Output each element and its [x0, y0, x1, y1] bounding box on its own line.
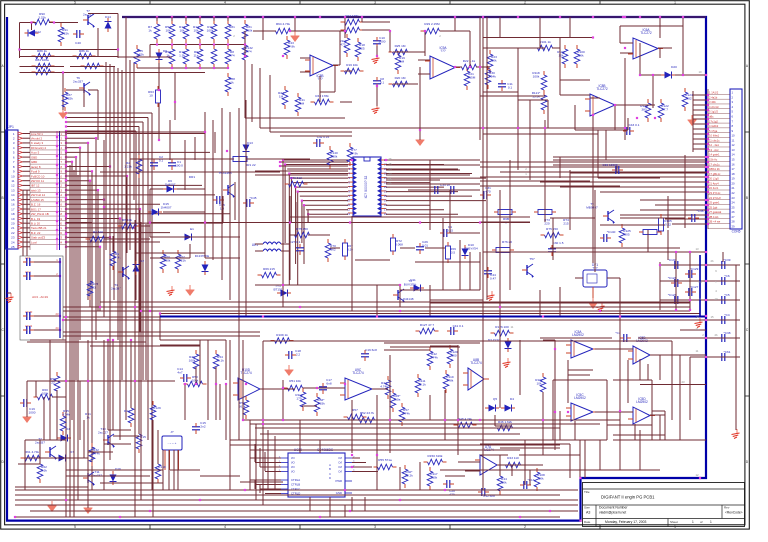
svg-text:27: 27 [732, 215, 736, 219]
svg-text:O/I: O/I [338, 470, 342, 474]
svg-text:2b: 2b [710, 259, 714, 263]
svg-text:IR1 22: IR1 22 [246, 163, 255, 167]
svg-text:21 4pc4: 21 4pc4 [709, 181, 719, 185]
svg-text:*C61: *C61 [724, 350, 731, 354]
svg-text:- ~ ~ +: - ~ ~ + [168, 441, 177, 445]
svg-text:<RevCode>: <RevCode> [725, 511, 743, 515]
svg-text:R51 10k: R51 10k [289, 379, 301, 383]
svg-text:of: of [700, 520, 703, 524]
svg-text:13 - Acc: 13 - Acc [709, 148, 719, 152]
svg-text:23: 23 [11, 236, 15, 240]
svg-text:16: 16 [732, 162, 736, 166]
svg-text:R43 110: R43 110 [507, 456, 519, 460]
svg-text:25 gate1: 25 gate1 [709, 201, 720, 205]
svg-text:2B <4 we: 2B <4 we [709, 220, 721, 224]
svg-text:TLC272: TLC272 [596, 87, 608, 91]
svg-text:23: 23 [732, 196, 736, 200]
svg-text:1: 1 [674, 1, 676, 5]
svg-text:R66 215: R66 215 [263, 267, 275, 271]
svg-text:GBD: GBD [31, 155, 37, 159]
svg-text:2: 2 [524, 525, 526, 529]
svg-text:R150 316k: R150 316k [428, 454, 443, 458]
svg-text:2sc337: 2sc337 [73, 79, 83, 83]
svg-text:R127 47.7: R127 47.7 [420, 323, 435, 327]
svg-text:21: 21 [11, 226, 15, 230]
svg-text:*C140: *C140 [607, 230, 616, 234]
svg-text:BT151: BT151 [273, 287, 282, 291]
svg-text:K stady 3: K stady 3 [31, 141, 43, 145]
svg-text:42.2k: 42.2k [405, 473, 413, 477]
svg-text:470: 470 [449, 492, 454, 496]
svg-text:1M: 1M [300, 101, 305, 105]
svg-text:*C6: *C6 [724, 274, 729, 278]
svg-text:R20 1M: R20 1M [395, 76, 406, 80]
svg-text:4.74k: 4.74k [62, 412, 70, 416]
svg-text:20: 20 [11, 221, 15, 225]
svg-text:D20: D20 [671, 65, 677, 69]
svg-text:R4 100: R4 100 [93, 230, 103, 234]
svg-text:1N4148: 1N4148 [403, 297, 414, 301]
svg-text:24: 24 [698, 280, 702, 284]
svg-text:205: 205 [624, 232, 629, 236]
svg-text:5: 5 [74, 525, 76, 529]
svg-text:Document Number: Document Number [599, 506, 628, 510]
svg-text:1/GBD 15: 1/GBD 15 [31, 198, 44, 202]
svg-text:22: 22 [732, 191, 736, 195]
svg-text:1: 1 [710, 520, 712, 524]
svg-text:R79 512: R79 512 [290, 176, 302, 180]
svg-text:4: 4 [224, 1, 226, 5]
svg-text:*C45: *C45 [250, 196, 257, 200]
svg-text:*C39: *C39 [724, 258, 731, 262]
svg-text:1 1A1/2: 1 1A1/2 [709, 91, 719, 95]
svg-text:11 cbc1c: 11 cbc1c [709, 138, 720, 142]
svg-text:100k: 100k [42, 391, 49, 395]
svg-text:11: 11 [511, 325, 514, 329]
svg-text:474: 474 [229, 53, 234, 57]
svg-text:GBD: GBD [31, 160, 37, 164]
svg-text:178k: 178k [447, 378, 454, 382]
svg-text:22 4cc1: 22 4cc1 [709, 186, 719, 190]
svg-text:1N4007: 1N4007 [165, 182, 176, 186]
svg-text:383: 383 [641, 107, 646, 111]
svg-text:C41 0.1: C41 0.1 [453, 324, 464, 328]
svg-text:1M: 1M [279, 94, 284, 98]
svg-text:C16 6n8: C16 6n8 [365, 348, 377, 352]
svg-text:100k: 100k [189, 358, 196, 362]
svg-text:D12: D12 [35, 30, 41, 34]
svg-text:21: 21 [732, 186, 736, 190]
svg-text:4n7: 4n7 [177, 370, 182, 374]
svg-text:LM2902: LM2902 [574, 396, 586, 400]
svg-text:179: 179 [296, 396, 301, 400]
svg-text:Monday, February 17, 2003: Monday, February 17, 2003 [605, 520, 647, 524]
svg-text:14: 14 [11, 193, 15, 197]
svg-text:29: 29 [732, 224, 736, 228]
svg-text:Tacio BB 21: Tacio BB 21 [31, 226, 47, 230]
svg-text:DIGIFANT II engin PG PCB1: DIGIFANT II engin PG PCB1 [601, 495, 655, 500]
svg-text:Size: Size [584, 506, 590, 510]
svg-text:2B 11c1: 2B 11c1 [709, 215, 719, 219]
svg-text:tdw) 13: tdw) 13 [31, 188, 41, 192]
svg-text:28: 28 [732, 220, 736, 224]
svg-text:B: B [329, 467, 331, 471]
svg-text:26: 26 [732, 210, 736, 214]
svg-text:Fcail 9: Fcail 9 [31, 170, 40, 174]
svg-text:332: 332 [686, 96, 691, 100]
svg-text:2.2: 2.2 [296, 352, 301, 356]
svg-text:13: 13 [695, 247, 699, 251]
svg-text:FcBCD 10: FcBCD 10 [31, 174, 45, 178]
svg-text:1k: 1k [230, 80, 234, 84]
svg-text:TLC274: TLC274 [470, 361, 482, 365]
svg-text:5: 5 [74, 1, 76, 5]
svg-text:1? gBL1c: 1? gBL1c [709, 172, 721, 176]
svg-text:1?c1g2: 1?c1g2 [709, 119, 718, 123]
svg-text:110a: 110a [394, 397, 401, 401]
svg-text:100: 100 [451, 353, 456, 357]
svg-text:1: 1 [674, 525, 676, 529]
svg-text:2n2: 2n2 [200, 424, 205, 428]
svg-text:0.068: 0.068 [395, 242, 403, 246]
svg-text:100k: 100k [331, 154, 338, 158]
svg-text:1.21k: 1.21k [178, 258, 186, 262]
svg-text:562k: 562k [239, 404, 246, 408]
svg-text:R46 1.62k: R46 1.62k [498, 420, 513, 424]
svg-text:C27 0.1: C27 0.1 [290, 240, 301, 244]
svg-text:24: 24 [388, 167, 392, 171]
svg-text:10: 10 [698, 70, 702, 74]
svg-text:B.Z. 16: B.Z. 16 [31, 203, 41, 207]
svg-text:3.32k: 3.32k [65, 96, 73, 100]
svg-text:5 1?ga: 5 1?ga [709, 129, 718, 133]
svg-text:14 gate1: 14 gate1 [709, 153, 720, 157]
svg-text:Date: Date [584, 520, 591, 524]
svg-text:25 1gb: 25 1gb [709, 205, 718, 209]
svg-text:???: ??? [440, 49, 446, 53]
svg-text:A: A [329, 463, 331, 467]
svg-text:17.8k: 17.8k [287, 44, 295, 48]
svg-text:1N4007: 1N4007 [161, 205, 172, 209]
svg-text:A3: A3 [586, 511, 590, 515]
svg-text:2 4a1b: 2 4a1b [709, 95, 718, 99]
svg-text:20: 20 [732, 181, 736, 185]
svg-text:18: 18 [11, 212, 15, 216]
svg-text:470: 470 [485, 189, 490, 193]
svg-text:CON5: CON5 [732, 230, 741, 234]
svg-text:Title: Title [584, 490, 590, 494]
svg-text:B: B [746, 196, 748, 200]
svg-text:12.1k: 12.1k [418, 382, 426, 386]
svg-text:3.5: 3.5 [451, 250, 456, 254]
svg-text:2.74k: 2.74k [430, 355, 438, 359]
svg-text:R16 10k: R16 10k [346, 63, 358, 67]
svg-text:10k: 10k [180, 28, 185, 32]
svg-text:24 2?c1/2: 24 2?c1/2 [709, 196, 721, 200]
svg-text:10 f/dw1: 10 f/dw1 [709, 134, 720, 138]
svg-text:25: 25 [388, 162, 392, 166]
svg-text:*C126: *C126 [668, 293, 677, 297]
svg-text:13: 13 [732, 148, 736, 152]
svg-text:6n8: 6n8 [326, 381, 331, 385]
svg-text:R130: R130 [158, 465, 166, 469]
svg-text:11a: 11a [194, 53, 199, 57]
svg-text:1M: 1M [400, 59, 405, 63]
svg-text:25: 25 [732, 205, 736, 209]
svg-text:13: 13 [11, 188, 15, 192]
svg-text:t/hould 2: t/hould 2 [31, 137, 42, 141]
svg-text:C40: C40 [75, 41, 81, 45]
svg-text:15: 15 [11, 198, 15, 202]
svg-text:21: 21 [695, 327, 699, 331]
svg-text:100k: 100k [246, 28, 253, 32]
svg-text:1.21k: 1.21k [124, 165, 132, 169]
svg-text:R126 100: R126 100 [495, 325, 509, 329]
svg-text:2sc337: 2sc337 [92, 473, 102, 477]
svg-text:R55 571a: R55 571a [378, 458, 392, 462]
svg-text:12: 12 [11, 184, 15, 188]
svg-text:26.1k: 26.1k [216, 358, 224, 362]
svg-text:EKBY//54: EKBY//54 [464, 246, 478, 250]
svg-text:23: 23 [388, 172, 392, 176]
svg-text:D19 P6KE: D19 P6KE [195, 254, 209, 258]
svg-text:100.0: 100.0 [175, 164, 183, 168]
svg-text:GND: GND [336, 491, 342, 495]
svg-text:12: 12 [695, 473, 699, 477]
svg-text:1000: 1000 [29, 410, 36, 414]
svg-text:14: 14 [695, 315, 699, 319]
svg-text:R101 1k: R101 1k [539, 40, 551, 44]
svg-text:1.54k: 1.54k [488, 74, 496, 78]
svg-text:Q5: Q5 [493, 397, 497, 401]
svg-text:R129: R129 [153, 406, 161, 410]
svg-text:*C5: *C5 [724, 293, 729, 297]
svg-text:23: 23 [681, 380, 685, 384]
svg-text:3 4bb: 3 4bb [709, 100, 716, 104]
svg-text:J?: J? [170, 430, 174, 434]
svg-text:BUV37%: BUV37% [404, 282, 417, 286]
svg-text:*C130: *C130 [668, 258, 677, 262]
svg-text:17: 17 [732, 167, 736, 171]
svg-text:IB7 12: IB7 12 [31, 184, 40, 188]
svg-text:1.33k: 1.33k [317, 401, 325, 405]
svg-text:ZW KK 11: ZW KK 11 [31, 179, 44, 183]
svg-text:15: 15 [710, 315, 714, 319]
svg-text:4: 4 [224, 525, 226, 529]
svg-text:14: 14 [732, 153, 736, 157]
svg-text:Stab outZ3: Stab outZ3 [31, 236, 46, 240]
svg-text:0.01: 0.01 [422, 243, 428, 247]
svg-text:B: B [2, 196, 4, 200]
svg-text:Rev: Rev [724, 506, 730, 510]
svg-text:1Bfb1 2b: 1Bfb1 2b [709, 167, 720, 171]
svg-text:Sheet: Sheet [670, 520, 678, 524]
svg-text:D14: D14 [105, 15, 111, 19]
svg-text:10k: 10k [537, 381, 542, 385]
svg-text:TLC274: TLC274 [240, 371, 252, 375]
svg-text:5 1g1/2: 5 1g1/2 [709, 110, 718, 114]
svg-text:47.9k: 47.9k [350, 151, 358, 155]
svg-text:19: 19 [732, 177, 736, 181]
svg-text:15: 15 [732, 158, 736, 162]
svg-text:TLC272: TLC272 [640, 31, 652, 35]
svg-text:12: 12 [732, 143, 736, 147]
svg-text:E1: E1 [190, 227, 194, 231]
svg-text:100k: 100k [192, 378, 199, 382]
svg-text:AC21: AC21 [25, 324, 33, 328]
svg-text:10k: 10k [492, 58, 497, 62]
svg-text:10: 10 [732, 134, 736, 138]
svg-text:10k: 10k [194, 28, 199, 32]
svg-text:R40 178k: R40 178k [315, 94, 329, 98]
svg-text:10k: 10k [502, 480, 507, 484]
svg-text:R22 1.1k: R22 1.1k [463, 59, 476, 63]
svg-text:C36 10000: C36 10000 [602, 163, 617, 167]
svg-text:100k: 100k [207, 28, 214, 32]
svg-text:825: 825 [359, 46, 364, 50]
svg-text:3: 3 [374, 525, 376, 529]
svg-text:23: 23 [56, 312, 59, 316]
svg-text:LM2902: LM2902 [572, 333, 584, 337]
svg-text:474: 474 [246, 49, 251, 53]
svg-text:0.1: 0.1 [508, 85, 513, 89]
svg-text:MB9407: MB9407 [586, 205, 598, 209]
svg-text:R61 4.74k: R61 4.74k [25, 450, 40, 454]
svg-text:B.Z. 22: B.Z. 22 [31, 231, 41, 235]
svg-text:2: 2 [524, 1, 526, 5]
svg-text:*C4: *C4 [724, 313, 729, 317]
svg-text:R52 23.7k: R52 23.7k [360, 411, 375, 415]
svg-text:O/I: O/I [338, 456, 342, 460]
svg-text:*C127: *C127 [690, 285, 699, 289]
svg-text:BG1 17: BG1 17 [31, 207, 41, 211]
svg-text:0.22: 0.22 [665, 222, 671, 226]
svg-text:C30 1.5: C30 1.5 [553, 241, 564, 245]
svg-text:3: 3 [374, 1, 376, 5]
svg-text:R57: R57 [352, 408, 358, 412]
svg-text:R75 150: R75 150 [546, 227, 558, 231]
svg-text:4 chc1d: 4 chc1d [709, 105, 719, 109]
svg-text:O/I: O/I [338, 461, 342, 465]
svg-text:*C129: *C129 [690, 267, 699, 271]
svg-text:*C46: *C46 [697, 209, 704, 213]
svg-text:22: 22 [11, 231, 15, 235]
svg-text:24: 24 [732, 201, 736, 205]
svg-text:tacio) 8: tacio) 8 [31, 165, 41, 169]
svg-text:R29 2.15M: R29 2.15M [424, 22, 440, 26]
svg-text:CTRLB: CTRLB [291, 483, 300, 487]
svg-text:R76 20: R76 20 [502, 240, 512, 244]
svg-text:4 iwbb2: 4 iwbb2 [709, 124, 719, 128]
svg-text:18: 18 [732, 172, 736, 176]
svg-text:R25 1M: R25 1M [395, 44, 406, 48]
svg-text:vladm@pisem.net: vladm@pisem.net [599, 511, 626, 515]
svg-text:23 ZY11c: 23 ZY11c [709, 191, 721, 195]
svg-text:*C13: *C13 [528, 478, 535, 482]
svg-text:2? gatewk: 2? gatewk [709, 210, 722, 214]
svg-text:3.32k: 3.32k [136, 52, 144, 56]
svg-text:A po 5: A po 5 [31, 151, 40, 155]
svg-text:21: 21 [388, 181, 392, 185]
svg-text:19: 19 [11, 217, 15, 221]
svg-text:R81: R81 [229, 25, 235, 29]
svg-text:1k: 1k [148, 28, 152, 32]
svg-text:10: 10 [149, 93, 153, 97]
svg-text:10: 10 [11, 174, 15, 178]
svg-text:0.47: 0.47 [490, 276, 496, 280]
svg-text:2.15k: 2.15k [61, 31, 69, 35]
svg-text:10k: 10k [579, 53, 584, 57]
svg-text:16: 16 [11, 203, 15, 207]
svg-text:4.74k: 4.74k [380, 384, 388, 388]
svg-text:JP1: JP1 [8, 125, 14, 129]
svg-text:24: 24 [56, 326, 59, 330]
svg-text:D: D [329, 476, 331, 480]
svg-text:ZW Full 14: ZW Full 14 [31, 193, 45, 197]
svg-text:3.3k: 3.3k [41, 468, 47, 472]
svg-text:B.Li 20: B.Li 20 [31, 221, 40, 225]
svg-text:AC3 - AC19: AC3 - AC19 [32, 295, 48, 299]
svg-text:*C38: *C38 [724, 331, 731, 335]
svg-text:C: C [329, 472, 331, 476]
svg-text:2b: 2b [714, 333, 718, 337]
svg-text:R109 1k: R109 1k [276, 333, 288, 337]
svg-text:R84 100a: R84 100a [35, 58, 49, 62]
svg-text:R14: R14 [124, 409, 130, 413]
svg-text:33: 33 [92, 285, 96, 289]
svg-text:475: 475 [340, 42, 345, 46]
svg-text:LM2902: LM2902 [636, 400, 648, 404]
svg-text:D4: D4 [510, 397, 514, 401]
svg-text:IC? X0000? 32: IC? X0000? 32 [364, 176, 368, 199]
svg-text:1? cbc1c: 1? cbc1c [709, 162, 720, 166]
svg-text:TLC274: TLC274 [352, 371, 364, 375]
svg-text:2sc327: 2sc327 [98, 430, 108, 434]
svg-text:4.74k: 4.74k [402, 411, 410, 415]
svg-text:215: 215 [563, 221, 568, 225]
svg-text:100k: 100k [164, 258, 171, 262]
svg-text:AC20: AC20 [25, 310, 33, 314]
svg-text:0.1: 0.1 [380, 80, 385, 84]
svg-text:10k: 10k [539, 476, 544, 480]
svg-text:PWR: PWR [335, 479, 342, 483]
svg-text:D13: D13 [247, 141, 253, 145]
svg-text:T57: T57 [529, 257, 535, 261]
svg-text:1000: 1000 [379, 39, 386, 43]
svg-text:15b Ac: 15b Ac [709, 158, 718, 162]
svg-text:DFGruck) 4: DFGruck) 4 [31, 146, 46, 150]
svg-text:LoaI: LoaI [31, 240, 37, 244]
svg-text:20 L1g5: 20 L1g5 [709, 177, 719, 181]
svg-text:25: 25 [11, 245, 15, 249]
svg-text:*C128: *C128 [668, 276, 677, 280]
svg-text:12 - 4a1: 12 - 4a1 [709, 143, 719, 147]
svg-text:CTRLA: CTRLA [291, 478, 300, 482]
svg-text:O/I: O/I [338, 465, 342, 469]
svg-text:C43 0.1: C43 0.1 [629, 123, 640, 127]
svg-text:24: 24 [11, 240, 15, 244]
svg-text:100k: 100k [533, 74, 540, 78]
svg-text:47.7: 47.7 [662, 107, 668, 111]
svg-text:10k: 10k [559, 53, 564, 57]
svg-text:D9: D9 [163, 49, 167, 53]
svg-text:R64 4.74k: R64 4.74k [276, 22, 291, 26]
svg-text:10k: 10k [166, 28, 171, 32]
svg-text:1: 1 [692, 520, 694, 524]
svg-text:2.15M: 2.15M [467, 75, 476, 79]
svg-text:1.3k: 1.3k [179, 53, 185, 57]
svg-text:11: 11 [732, 138, 735, 142]
